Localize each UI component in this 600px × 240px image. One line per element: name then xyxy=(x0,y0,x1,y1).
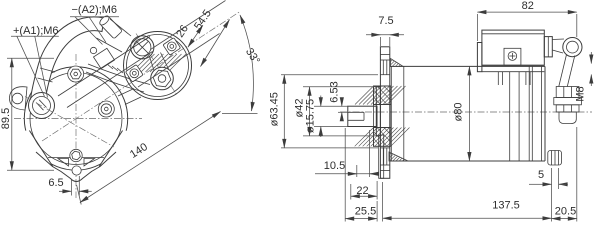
dim 6.53 arrows xyxy=(341,98,343,107)
left ear boss inner hole xyxy=(33,97,51,115)
33 deg arc xyxy=(240,15,253,111)
flange corner chamfer right (white cover) xyxy=(99,130,136,171)
svg-text:6.53: 6.53 xyxy=(328,81,340,102)
solenoid outer circle xyxy=(124,32,192,100)
dim M8 arrows xyxy=(590,52,592,64)
solenoid screw boss xyxy=(504,48,521,65)
pinion block upper (hatched) xyxy=(374,86,392,105)
flange chamfer edge left xyxy=(29,131,52,167)
left terminal bump xyxy=(9,87,27,110)
flange spigot ticks xyxy=(380,74,389,76)
terminal strap upper xyxy=(552,38,564,41)
centerline: shaft axis xyxy=(340,111,592,113)
flange bottom V outline xyxy=(36,152,116,182)
flange lever foot xyxy=(379,135,384,178)
bracket wedge hatch marks xyxy=(107,64,113,69)
svg-text:M8: M8 xyxy=(575,86,587,101)
front bolt B1 xyxy=(68,66,84,82)
dim 89.5 line xyxy=(11,58,13,170)
dim 22 line xyxy=(351,195,377,197)
flange plate inner verticals xyxy=(382,60,384,75)
tube cap xyxy=(98,14,110,26)
dim 89.5 extension top xyxy=(7,57,54,59)
svg-text:5: 5 xyxy=(538,169,544,181)
top terminal tube (A2 stud) xyxy=(98,14,122,39)
dim dia63.45 extensions xyxy=(281,74,378,76)
bottom hole H2 xyxy=(72,166,81,175)
dim dia42 line xyxy=(309,87,311,136)
flange V web left cutout xyxy=(58,159,69,167)
terminal hex nut 2 xyxy=(556,105,579,112)
splined shaft fork outline xyxy=(348,106,377,126)
terminal block on arm xyxy=(93,48,114,68)
dim 5 extension xyxy=(558,168,560,189)
flange plate tick lines xyxy=(380,54,389,56)
solenoid rim circle xyxy=(127,35,189,97)
terminal eyelet outer xyxy=(563,38,582,57)
solenoid inner top line xyxy=(482,33,544,35)
solenoid front lip xyxy=(477,43,482,72)
terminal base cap xyxy=(559,112,576,124)
dim 5 arrows xyxy=(540,183,552,185)
dim 20.5 line xyxy=(552,218,577,220)
svg-text:82: 82 xyxy=(522,0,534,12)
leader lines for A1 xyxy=(17,36,45,96)
bracket band lower curve xyxy=(86,72,144,92)
horizontal reference line for 33deg xyxy=(222,113,258,115)
through bolt lines xyxy=(509,72,511,161)
dim 25.5 line xyxy=(345,218,377,220)
dim 26 line xyxy=(188,25,203,47)
svg-text:20.5: 20.5 xyxy=(555,206,576,218)
flange hub xyxy=(376,87,380,136)
solenoid rear cap xyxy=(544,37,552,57)
drive bracket verticals xyxy=(390,66,392,161)
dim 6.5 arrows xyxy=(59,190,71,192)
terminal ring T (A2 eyelet) xyxy=(131,36,154,59)
bracket legs right pair xyxy=(525,72,527,85)
solenoid nut center hole xyxy=(158,75,166,83)
extension line 33deg lower xyxy=(138,34,220,88)
svg-text:+(A1);M6: +(A1);M6 xyxy=(13,25,59,37)
svg-text:ø15.75: ø15.75 xyxy=(305,99,317,133)
drive bracket bottom edge xyxy=(390,160,545,162)
dim 82 line xyxy=(477,11,576,13)
rear knob (ribbed) xyxy=(548,151,562,166)
dim 25.5 extensions xyxy=(344,128,346,222)
dim dia15.75 arrows xyxy=(320,96,322,107)
dim 6.5 extension lines xyxy=(70,180,72,196)
dim 10.5 extensions xyxy=(356,165,358,177)
solenoid body (side view) xyxy=(482,30,544,65)
dim 10.5 line xyxy=(315,173,373,175)
flange face strap edge lines (33 deg) xyxy=(58,37,150,97)
strap from T to solenoid nut xyxy=(150,57,156,74)
rear seam lines xyxy=(528,66,530,161)
dim dia63.45 line xyxy=(283,75,285,148)
dim 137.5 extension xyxy=(382,182,384,222)
terminal block stud cap xyxy=(90,47,96,53)
nose arm band (white filled) xyxy=(30,17,104,103)
dim 82 extensions xyxy=(476,14,478,41)
terminal eyelet hole xyxy=(567,41,579,53)
bottom hole H1 (hex screw) xyxy=(70,149,82,161)
fork slot xyxy=(348,111,364,113)
centerline: solenoid perpendicular axis xyxy=(136,34,177,96)
dim dia80 line xyxy=(468,66,470,161)
svg-text:7.5: 7.5 xyxy=(378,15,393,27)
svg-text:22: 22 xyxy=(356,185,368,197)
extension line 33deg upper xyxy=(151,1,226,50)
dim 7.5 line xyxy=(366,34,404,36)
terminal hex nut 1 xyxy=(556,87,579,98)
flange V web right cutout xyxy=(84,159,95,167)
centerline: 33deg axis through motor and solenoid xyxy=(42,12,240,142)
dim dia15.75 extensions xyxy=(314,105,348,107)
flange face chord line xyxy=(48,157,104,159)
svg-text:6.5: 6.5 xyxy=(48,177,63,189)
dim dia42 extensions xyxy=(303,86,376,88)
svg-text:ø80: ø80 xyxy=(453,103,465,122)
dim 22 extensions xyxy=(350,184,352,200)
terminal washer xyxy=(554,98,582,105)
bracket legs left pair xyxy=(497,72,499,85)
solenoid center hex nut outer circle xyxy=(151,67,174,90)
svg-text:ø63.45: ø63.45 xyxy=(269,92,281,126)
flange chamfer edge right xyxy=(99,131,122,167)
mounting flange plate xyxy=(380,47,389,179)
dim 140 extension lower xyxy=(77,185,82,205)
svg-text:10.5: 10.5 xyxy=(324,160,345,172)
motor body inner circle xyxy=(30,73,122,165)
nose arm collar lines xyxy=(40,68,55,72)
ear boss slot chords xyxy=(36,103,43,111)
label A1 underline xyxy=(11,35,59,37)
left ear mounting boss E outer xyxy=(29,93,55,119)
solenoid bottom band xyxy=(482,64,544,66)
solenoid screw pad upper-right xyxy=(163,38,181,56)
terminal ring slot cross xyxy=(136,41,148,53)
bracket line arm to solenoid xyxy=(110,19,131,36)
centerline through ear boss 33deg xyxy=(25,97,114,148)
dim 137.5 line xyxy=(383,217,552,219)
dim 20.5 extensions xyxy=(551,168,553,222)
dim 89.5 extension bottom xyxy=(7,169,54,171)
flange corner chamfer left (white cover) xyxy=(13,130,53,171)
svg-text:25.5: 25.5 xyxy=(355,206,376,218)
bracket band upper curve xyxy=(88,64,150,85)
front bolt B2 xyxy=(98,101,114,117)
solenoid screw pad lower-left xyxy=(125,65,143,83)
rear end cap lines xyxy=(541,66,543,161)
leader lines for A2 xyxy=(75,17,103,45)
svg-text:89.5: 89.5 xyxy=(0,108,12,129)
centerline: motor horizontal axis xyxy=(14,118,142,120)
motor body outer circle xyxy=(24,67,127,170)
dim 140 line xyxy=(80,112,221,203)
solenoid screw head xyxy=(508,52,517,61)
centerline: motor vertical axis xyxy=(75,54,77,198)
label A2 underline xyxy=(70,16,119,18)
solenoid bracket lines to motor body xyxy=(118,89,134,97)
dim 7.5 extensions xyxy=(379,37,381,46)
solenoid hex nut xyxy=(153,70,171,87)
dim 54.5 line xyxy=(201,20,230,67)
terminal strap lower xyxy=(559,55,567,87)
svg-text:−(A2);M6: −(A2);M6 xyxy=(72,4,118,16)
drive bracket top edge xyxy=(390,65,545,67)
pinion mid section xyxy=(374,105,392,128)
pinion block lower (hatched) xyxy=(374,128,392,147)
svg-text:137.5: 137.5 xyxy=(492,200,520,212)
